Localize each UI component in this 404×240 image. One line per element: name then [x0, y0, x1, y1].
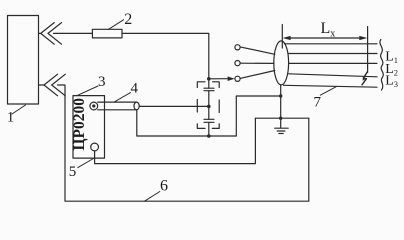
- svg-text:6: 6: [160, 178, 168, 195]
- svg-text:7: 7: [314, 95, 322, 111]
- cable core L3: [289, 74, 377, 77]
- divider dashed box: [197, 82, 219, 129]
- junction divider mid: [207, 105, 211, 109]
- cable core L1: [289, 53, 377, 55]
- divider internal wire: [208, 79, 210, 136]
- leader 2: [109, 20, 124, 30]
- wire center conductor to divider: [139, 105, 209, 107]
- svg-text:Lx: Lx: [321, 20, 336, 39]
- wire loop 6: [58, 85, 309, 201]
- generator block 1: [8, 16, 39, 105]
- dimension extension line right: [367, 27, 369, 73]
- reflectometer box 3: [73, 96, 105, 159]
- leader 1: [12, 105, 26, 114]
- junction earth: [279, 117, 282, 120]
- svg-text:4: 4: [131, 81, 139, 97]
- terminal circle 5: [91, 143, 99, 151]
- plug arrow wire: [209, 78, 229, 80]
- junction sheath: [279, 94, 282, 97]
- cable break wavy line: [380, 40, 383, 91]
- capacitor C-top: [204, 88, 214, 91]
- capacitor C-bottom: [204, 119, 214, 122]
- dimension arrow right: [359, 36, 367, 40]
- shield ground bus: [137, 96, 281, 136]
- cable sheath bottom: [284, 85, 378, 87]
- wire resistor to divider top: [122, 33, 209, 78]
- svg-text:1: 1: [7, 110, 15, 126]
- junction divider top: [207, 77, 211, 81]
- resistor R (2): [92, 29, 122, 38]
- leader 3: [77, 86, 99, 96]
- cable core L2: [289, 62, 377, 64]
- wire generator to resistor: [54, 32, 93, 34]
- phase terminal circle C: [235, 76, 240, 81]
- svg-text:2: 2: [124, 11, 132, 28]
- plug arrowhead: [228, 76, 235, 81]
- dimension line Lx: [286, 37, 364, 39]
- earth wire from cable: [280, 85, 282, 128]
- adapter cylinder 4: [98, 102, 137, 110]
- cable end ellipse: [274, 41, 289, 85]
- leader 6: [145, 192, 160, 202]
- cable sheath top: [285, 43, 378, 45]
- lead to cable core A: [240, 47, 275, 54]
- leader 7: [320, 87, 336, 95]
- lead to cable core B: [240, 62, 274, 64]
- dimension extension line left: [281, 25, 283, 49]
- ground bus right: [255, 117, 308, 119]
- output connector chevron top: [39, 23, 62, 45]
- phase terminal circle B: [235, 61, 240, 66]
- svg-text:5: 5: [69, 164, 77, 180]
- wire terminal5 to bus: [95, 118, 256, 163]
- ground symbol: [275, 128, 289, 133]
- connector center dot: [92, 104, 95, 107]
- lead to cable core C: [240, 71, 275, 79]
- dimension arrow left: [283, 36, 291, 40]
- connector circle on box: [90, 102, 98, 110]
- output connector chevron bottom: [39, 74, 66, 96]
- leader 4: [115, 93, 131, 102]
- svg-text:ЦР0200: ЦР0200: [71, 98, 88, 151]
- phase terminal circle A: [235, 45, 240, 50]
- junction divider bottom: [207, 134, 211, 138]
- leader 5: [78, 158, 95, 168]
- svg-text:3: 3: [98, 74, 106, 90]
- fault zigzag: [362, 72, 367, 85]
